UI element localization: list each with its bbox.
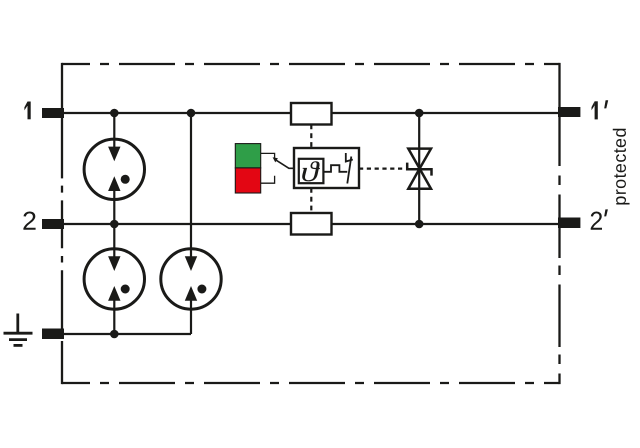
status indicator green field xyxy=(235,144,260,168)
wire column TVS xyxy=(418,113,420,224)
switch fixed contact with hook xyxy=(346,153,353,162)
wire column 2 (GDT branch to ground) xyxy=(190,113,192,258)
wire line 2 (terminal 2 to 2') xyxy=(64,223,291,225)
gas discharge tube F3 (line1-ground branch) xyxy=(161,249,221,309)
indicator switch blade with arrow xyxy=(275,160,294,169)
node F (ground wire / column1) xyxy=(110,330,119,339)
node A (line1 / column1) xyxy=(110,109,119,118)
ground wire xyxy=(64,333,191,335)
step waveform link xyxy=(323,165,347,172)
node D (line1 / TVS) xyxy=(415,109,424,118)
device enclosure dashed border xyxy=(62,63,560,384)
terminal 2 xyxy=(42,219,64,229)
node B (line1 / column2) xyxy=(187,109,196,118)
label 1 xyxy=(24,102,30,120)
gas discharge tube F2 (line2-ground) xyxy=(84,249,144,309)
ground symbol xyxy=(4,314,33,346)
mechanical link dashed (R1 to thermal box) xyxy=(310,125,312,149)
ground terminal xyxy=(42,329,64,340)
wire column 1 (through GDT stack) xyxy=(113,113,115,148)
indicator linkage bracket bottom xyxy=(261,176,275,183)
node E (line2 / TVS) xyxy=(415,220,424,229)
terminal 2' xyxy=(558,218,580,229)
thermal sensor inner square xyxy=(299,159,324,183)
mechanical link dashed (thermal box to R2) xyxy=(310,188,312,213)
indicator linkage bracket top xyxy=(261,153,275,158)
suppressor diode bar xyxy=(407,163,431,176)
gas discharge tube F1 (line1-line2) xyxy=(84,139,144,199)
switch blade xyxy=(347,157,351,184)
series impedance R1 (line 1) xyxy=(291,103,332,125)
mechanical link dashed (thermal box to TVS) xyxy=(359,168,404,170)
wire line 1 (terminal 1 to 1') xyxy=(64,112,291,114)
status indicator red field xyxy=(235,168,260,193)
node C (line2 / column1) xyxy=(110,220,119,229)
series impedance R2 (line 2) xyxy=(291,213,332,235)
terminal 1' xyxy=(558,107,580,117)
label 1' xyxy=(592,100,609,119)
terminal 1 xyxy=(42,108,64,118)
label 2 xyxy=(23,212,35,230)
label protected xyxy=(613,129,630,205)
label 2' xyxy=(591,212,602,230)
label theta (thermal sensor) xyxy=(302,161,320,181)
thermal disconnect device box xyxy=(294,148,359,188)
suppressor diode (bidirectional TVS) top triangle xyxy=(408,149,431,169)
suppressor diode bottom triangle xyxy=(408,169,431,189)
